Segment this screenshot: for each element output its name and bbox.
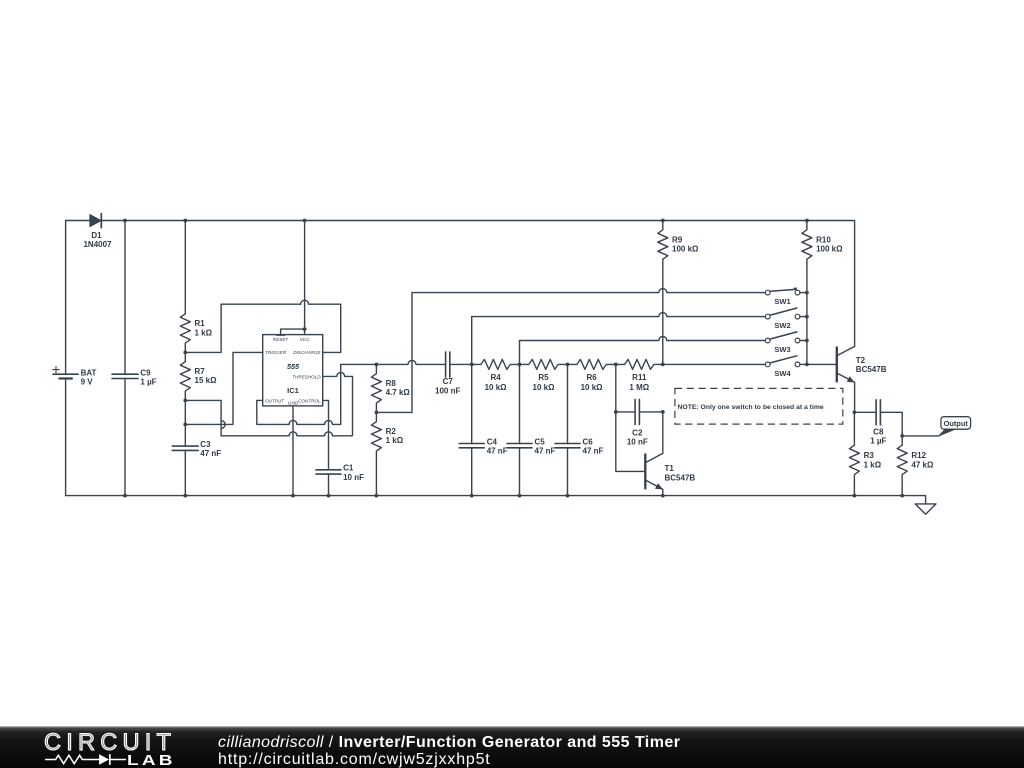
wire output chain to C7: [341, 360, 446, 366]
wire R7 to C3: [183, 351, 187, 447]
resistor R3: [849, 412, 881, 495]
svg-text:R10: R10: [816, 235, 831, 244]
wire reset-vcc tie: [281, 221, 307, 335]
svg-text:R6: R6: [586, 373, 597, 382]
resistor R12: [897, 436, 934, 496]
svg-text:C4: C4: [487, 437, 498, 446]
resistor R7: [180, 352, 217, 400]
resistor R4: [472, 359, 520, 392]
svg-text:SW4: SW4: [774, 369, 791, 378]
svg-text:TRIGGER: TRIGGER: [265, 350, 287, 355]
resistor R11: [616, 359, 663, 392]
svg-text:1 kΩ: 1 kΩ: [864, 460, 882, 469]
svg-text:R3: R3: [864, 451, 875, 460]
diode D1: [83, 214, 112, 249]
transistor T2: [837, 346, 887, 382]
wire trigger net: [185, 352, 262, 424]
node chain junctions: [470, 363, 665, 367]
svg-text:1 kΩ: 1 kΩ: [386, 436, 404, 445]
svg-text:R8: R8: [386, 379, 397, 388]
capacitor C2: [614, 399, 665, 446]
capacitor C1: [316, 464, 364, 496]
svg-text:47 nF: 47 nF: [583, 447, 604, 456]
svg-text:OUTPUT: OUTPUT: [265, 398, 285, 403]
resistor R9: [658, 221, 699, 269]
wire bottom ground rail: [66, 494, 926, 504]
svg-text:GND: GND: [288, 401, 299, 406]
svg-text:SW1: SW1: [774, 297, 790, 306]
svg-text:T1: T1: [665, 464, 675, 473]
svg-text:10 kΩ: 10 kΩ: [533, 383, 556, 392]
svg-text:C9: C9: [140, 368, 151, 377]
svg-text:Output: Output: [944, 419, 969, 428]
svg-text:BC547B: BC547B: [856, 365, 887, 374]
capacitor C7: [435, 352, 460, 396]
svg-text:47 kΩ: 47 kΩ: [911, 460, 934, 469]
wire top supply rail: [66, 219, 855, 347]
switch SW2: [765, 308, 807, 330]
wire gnd pin: [292, 406, 294, 496]
svg-text:R5: R5: [538, 373, 549, 382]
capacitor C9: [112, 221, 157, 496]
svg-text:NOTE: Only one switch to be cl: NOTE: Only one switch to be closed at a …: [678, 404, 824, 411]
wire T1 collector: [662, 412, 664, 454]
wire control pin to C1: [323, 400, 329, 469]
battery BAT 9V: [53, 366, 97, 386]
wire R10 column: [805, 269, 809, 367]
wire SW3 tap: [520, 337, 766, 365]
svg-text:BC547B: BC547B: [665, 473, 696, 482]
svg-text:VCC: VCC: [300, 337, 310, 342]
svg-text:10 kΩ: 10 kΩ: [485, 383, 508, 392]
note box: [675, 388, 843, 424]
svg-text:IC1: IC1: [287, 386, 300, 395]
svg-text:CONTROL: CONTROL: [298, 398, 321, 403]
wire SW2 tap: [472, 313, 766, 365]
svg-text:D1: D1: [91, 231, 102, 240]
svg-text:RESET: RESET: [273, 337, 290, 342]
capacitor C8: [854, 400, 904, 446]
wire left branch: [65, 221, 67, 496]
svg-text:R9: R9: [672, 235, 683, 244]
resistor R2: [371, 411, 403, 496]
svg-text:DISCHARGE: DISCHARGE: [293, 350, 321, 355]
ground: [915, 504, 936, 514]
svg-text:10 kΩ: 10 kΩ: [581, 383, 604, 392]
svg-text:T2: T2: [856, 356, 866, 365]
wire threshold net: [185, 372, 352, 435]
svg-text:THRESHOLD: THRESHOLD: [292, 374, 321, 379]
switch SW4: [765, 356, 807, 378]
resistor R6: [568, 359, 616, 392]
svg-text:C8: C8: [873, 428, 884, 437]
footer title text: [218, 735, 680, 751]
resistor R10: [802, 221, 843, 269]
svg-text:1 µF: 1 µF: [140, 377, 156, 386]
resistor R8: [371, 364, 410, 412]
wire discharge loop: [185, 300, 340, 352]
svg-text:555: 555: [287, 362, 300, 371]
capacitor C5: [507, 364, 556, 495]
svg-text:R11: R11: [632, 373, 647, 382]
capacitor C3: [172, 440, 221, 496]
wire 555 output net: [257, 364, 341, 424]
resistor R1: [180, 221, 212, 353]
svg-text:9 V: 9 V: [81, 377, 94, 386]
svg-text:R1: R1: [195, 319, 206, 328]
svg-text:C6: C6: [583, 437, 594, 446]
wire R9 column: [662, 269, 664, 365]
svg-text:100 kΩ: 100 kΩ: [672, 245, 699, 254]
switch SW3: [765, 332, 807, 354]
svg-text:C3: C3: [200, 440, 211, 449]
svg-text:15 kΩ: 15 kΩ: [195, 376, 218, 385]
svg-text:10 nF: 10 nF: [627, 438, 648, 447]
svg-text:1 kΩ: 1 kΩ: [195, 328, 213, 337]
svg-text:100 kΩ: 100 kΩ: [816, 245, 843, 254]
wire T2 emitter to C8 node: [853, 382, 857, 414]
svg-text:R2: R2: [386, 427, 397, 436]
svg-text:R4: R4: [490, 373, 501, 382]
capacitor C4: [459, 364, 508, 495]
svg-text:C2: C2: [632, 429, 643, 438]
svg-text:C5: C5: [535, 437, 546, 446]
svg-text:C1: C1: [343, 464, 354, 473]
svg-text:47 nF: 47 nF: [487, 447, 508, 456]
svg-text:10 nF: 10 nF: [343, 473, 364, 482]
svg-text:100 nF: 100 nF: [435, 387, 460, 396]
svg-text:1 MΩ: 1 MΩ: [629, 383, 649, 392]
svg-text:BAT: BAT: [81, 368, 97, 377]
switch SW1: [765, 287, 807, 306]
node Output flag: [939, 417, 971, 436]
wire T1 base branch: [616, 364, 646, 471]
svg-text:4.7 kΩ: 4.7 kΩ: [386, 388, 411, 397]
wire SW4 to T2 base: [807, 363, 837, 365]
svg-text:1 µF: 1 µF: [870, 436, 886, 445]
logo resistor-diode glyph: [45, 753, 127, 766]
svg-text:47 nF: 47 nF: [200, 449, 221, 458]
wire output flag: [902, 435, 939, 437]
CircuitLab logo wordmark: [44, 732, 176, 756]
wire chain to SW4: [663, 363, 766, 365]
IC 555 timer IC1: [263, 335, 323, 406]
svg-text:R12: R12: [911, 451, 926, 460]
svg-text:1N4007: 1N4007: [83, 240, 112, 249]
svg-text:SW3: SW3: [774, 345, 790, 354]
transistor T1: [645, 453, 695, 489]
svg-text:R7: R7: [195, 367, 206, 376]
wire C7 to R4: [450, 363, 472, 365]
svg-text:C7: C7: [443, 377, 454, 386]
capacitor C6: [555, 364, 604, 495]
svg-text:47 nF: 47 nF: [535, 447, 556, 456]
wire T1 emitter: [662, 489, 664, 495]
resistor R5: [520, 359, 568, 392]
wire R8 junction to SW1: [376, 289, 765, 413]
svg-text:SW2: SW2: [774, 321, 790, 330]
